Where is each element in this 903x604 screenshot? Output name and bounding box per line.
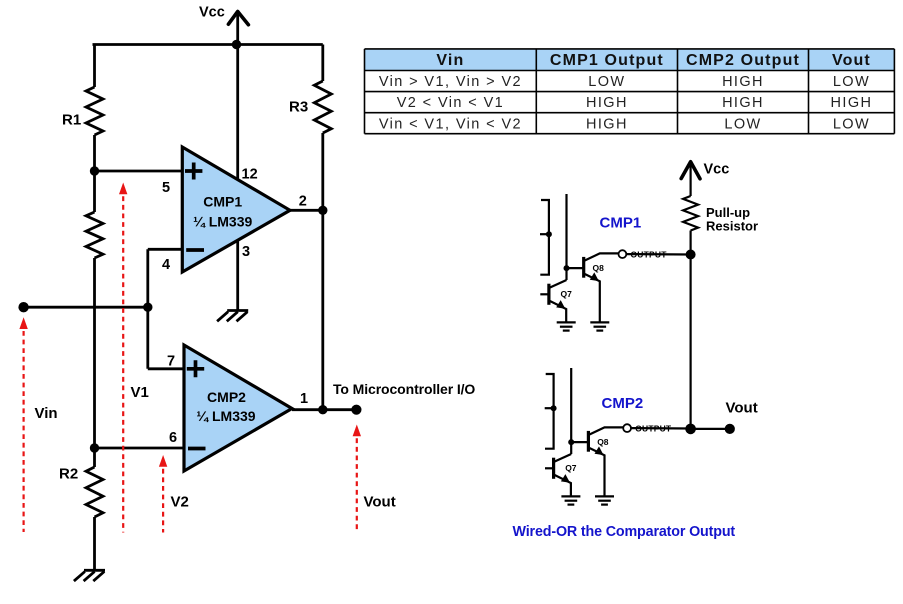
svg-text:V2 < Vin < V1: V2 < Vin < V1 <box>397 95 504 111</box>
svg-text:Vin: Vin <box>35 405 58 422</box>
svg-text:HIGH: HIGH <box>722 95 764 111</box>
svg-text:R2: R2 <box>59 465 78 482</box>
svg-text:Q8: Q8 <box>593 263 605 273</box>
svg-text:HIGH: HIGH <box>722 74 764 90</box>
svg-text:Vout: Vout <box>726 400 758 417</box>
svg-text:Resistor: Resistor <box>706 219 758 234</box>
svg-text:Vout: Vout <box>832 52 871 69</box>
svg-text:Vout: Vout <box>364 493 396 510</box>
svg-text:LOW: LOW <box>833 74 870 90</box>
svg-text:4: 4 <box>162 257 170 273</box>
svg-text:CMP2: CMP2 <box>602 395 644 412</box>
svg-text:R1: R1 <box>62 112 81 129</box>
svg-text:LOW: LOW <box>588 74 625 90</box>
svg-text:CMP1: CMP1 <box>203 193 242 209</box>
svg-text:Vin > V1, Vin > V2: Vin > V1, Vin > V2 <box>379 74 522 90</box>
svg-text:¼ LM339: ¼ LM339 <box>193 214 252 230</box>
svg-text:¼ LM339: ¼ LM339 <box>196 408 255 424</box>
svg-text:CMP1 Output: CMP1 Output <box>550 52 664 69</box>
svg-text:1: 1 <box>300 391 308 407</box>
svg-text:6: 6 <box>169 430 177 446</box>
svg-text:Wired-OR the Comparator Output: Wired-OR the Comparator Output <box>513 524 736 540</box>
svg-text:Q8: Q8 <box>597 437 609 447</box>
svg-text:LOW: LOW <box>833 116 870 132</box>
svg-text:Vin: Vin <box>436 52 464 69</box>
svg-text:V2: V2 <box>171 494 189 511</box>
svg-text:OUTPUT: OUTPUT <box>631 249 668 259</box>
svg-text:CMP2: CMP2 <box>207 389 246 405</box>
svg-text:7: 7 <box>167 354 175 370</box>
svg-text:Vcc: Vcc <box>704 161 730 177</box>
svg-text:3: 3 <box>242 244 250 260</box>
svg-text:12: 12 <box>242 167 258 183</box>
svg-text:HIGH: HIGH <box>831 95 873 111</box>
svg-text:To Microcontroller I/O: To Microcontroller I/O <box>333 381 475 397</box>
svg-text:V1: V1 <box>131 384 149 401</box>
svg-text:Vin < V1, Vin < V2: Vin < V1, Vin < V2 <box>379 116 522 132</box>
svg-text:LOW: LOW <box>724 116 761 132</box>
svg-text:Vcc: Vcc <box>199 5 225 21</box>
svg-text:Q7: Q7 <box>565 463 577 473</box>
svg-text:CMP1: CMP1 <box>600 215 642 232</box>
svg-text:HIGH: HIGH <box>586 116 628 132</box>
svg-text:HIGH: HIGH <box>586 95 628 111</box>
svg-text:OUTPUT: OUTPUT <box>635 423 672 433</box>
svg-text:R3: R3 <box>289 98 308 115</box>
svg-text:Q7: Q7 <box>561 289 573 299</box>
svg-text:2: 2 <box>299 193 307 209</box>
svg-text:5: 5 <box>162 180 170 196</box>
svg-text:CMP2 Output: CMP2 Output <box>686 52 800 69</box>
